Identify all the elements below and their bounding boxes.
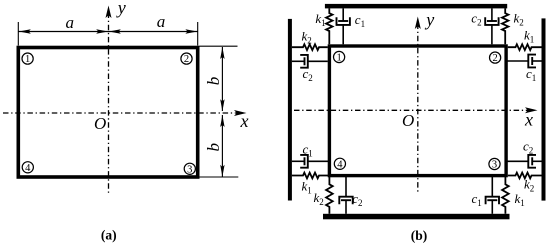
- spring k2 top-right vertical: [502, 8, 508, 44]
- y-axis centerline (a): [108, 13, 110, 196]
- svg-text:x: x: [240, 111, 249, 131]
- spring k2 bottom-left vertical: [326, 177, 333, 214]
- label b upper: [204, 77, 223, 86]
- y-axis arrow (a): [106, 6, 112, 19]
- dimension line a left: [18, 31, 108, 33]
- svg-text:x: x: [524, 110, 533, 130]
- dimension line a right: [109, 31, 198, 33]
- svg-text:3: 3: [492, 160, 497, 171]
- spring k1 top-left vertical: [326, 8, 332, 44]
- svg-text:y: y: [424, 10, 434, 30]
- x-axis arrow (b): [525, 107, 538, 113]
- damper c2 top-right vertical: [491, 8, 493, 21]
- svg-text:2: 2: [492, 53, 497, 64]
- spring k1 top-right horizontal: [508, 44, 542, 50]
- extension line bottom-right (a): [200, 176, 239, 178]
- svg-text:(a): (a): [101, 228, 117, 243]
- spring k1 bottom-right vertical: [502, 177, 509, 214]
- svg-text:b: b: [204, 77, 223, 86]
- plate outline (b): [329, 46, 506, 176]
- extension line top-right (a): [200, 45, 238, 47]
- extension line right (a): [197, 22, 199, 46]
- corner node 1 (a): [22, 53, 33, 64]
- damper c1 bottom-left horizontal: [292, 160, 305, 162]
- wall left (b): [288, 19, 292, 201]
- svg-text:a: a: [66, 13, 75, 32]
- damper c1 top-right horizontal: [506, 60, 528, 62]
- label b lower: [204, 143, 223, 152]
- svg-text:2: 2: [184, 54, 189, 65]
- corner node 4 (b): [334, 158, 345, 169]
- x-axis arrow (a): [234, 110, 247, 116]
- svg-text:b: b: [204, 143, 223, 152]
- wall right (b): [542, 18, 546, 200]
- spring k2 bottom-right horizontal: [508, 173, 542, 179]
- spring k2 top-left horizontal: [292, 44, 328, 50]
- damper c1 top-left vertical: [342, 8, 344, 21]
- svg-text:(b): (b): [411, 228, 428, 243]
- svg-text:O: O: [402, 111, 414, 130]
- damper c2 bottom-right horizontal: [506, 160, 528, 162]
- corner node 1 (b): [334, 51, 345, 62]
- damper c2 bottom-left vertical: [345, 177, 347, 197]
- svg-text:O: O: [94, 114, 106, 133]
- b dimension line upper: [221, 47, 223, 111]
- wall top (b): [325, 4, 507, 8]
- corner node 3 (a): [184, 163, 195, 174]
- y-axis arrow (b): [415, 17, 421, 30]
- corner node 3 (b): [489, 158, 500, 169]
- b dimension line lower: [221, 115, 223, 177]
- svg-text:a: a: [157, 12, 166, 31]
- damper c1 bottom-right vertical: [491, 177, 493, 197]
- y-axis centerline (b): [417, 24, 419, 194]
- spring k1 bottom-left horizontal: [292, 173, 329, 179]
- svg-text:4: 4: [25, 163, 31, 174]
- svg-text:y: y: [116, 0, 126, 17]
- plate outline (a): [18, 48, 197, 178]
- svg-text:4: 4: [337, 159, 343, 170]
- svg-text:1: 1: [25, 54, 30, 65]
- svg-text:1: 1: [336, 53, 341, 64]
- corner node 4 (a): [22, 162, 33, 173]
- x-axis centerline (a): [3, 112, 241, 114]
- damper c2 top-left horizontal: [292, 60, 305, 62]
- wall bottom (b): [323, 214, 510, 220]
- corner node 2 (a): [181, 53, 192, 64]
- x-axis centerline (b): [294, 109, 531, 111]
- svg-text:3: 3: [187, 164, 192, 175]
- corner node 2 (b): [490, 52, 501, 63]
- extension line left (a): [17, 22, 19, 46]
